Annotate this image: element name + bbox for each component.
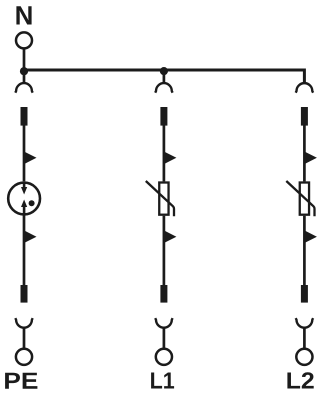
wire left terminal stem [23,328,26,349]
wire middle upper [163,126,166,182]
wire middle terminal stem [163,328,166,349]
disconnector flag left lower [24,230,37,243]
disconnector flag right lower [304,230,317,243]
varistor RV2 [286,181,314,216]
plug contact terminal left bottom [21,285,28,303]
terminal L1 [156,349,172,365]
varistor RV1 [146,181,174,216]
node L2 label [287,372,313,388]
wire left upper [23,126,26,182]
plug contact terminal right top [301,107,308,126]
junction middle [160,67,168,75]
terminal PE [16,349,32,365]
plug contact terminal right bottom [301,285,308,303]
plug connector top middle branch [155,83,172,93]
node N label [16,6,31,24]
plug contact terminal middle top [160,107,167,126]
wire stub left branch [23,70,26,83]
terminal N [16,32,32,48]
wire middle lower [163,216,166,285]
disconnector flag right upper [304,152,317,165]
plug connector bottom left branch [15,318,32,328]
wire N terminal to bus [23,49,26,70]
plug connector top right branch [296,83,313,93]
plug connector bottom right branch [296,318,313,328]
disconnector flag left upper [24,152,37,165]
wire N bus [24,70,304,83]
plug contact terminal middle bottom [160,285,167,303]
disconnector flag middle lower [164,230,177,243]
gas discharge tube U1 [8,183,40,215]
plug connector top left branch [15,83,32,93]
wire stub middle branch [163,70,166,83]
disconnector flag middle upper [164,152,177,165]
plug contact terminal left top [21,107,28,126]
plug connector bottom middle branch [155,318,172,328]
junction left [20,67,28,75]
wire left lower [23,214,26,285]
node L1 label [151,373,174,389]
wire right upper [303,126,306,182]
wire right lower [303,216,306,285]
terminal L2 [296,349,312,365]
node PE label [5,373,37,389]
wire right terminal stem [303,328,306,349]
